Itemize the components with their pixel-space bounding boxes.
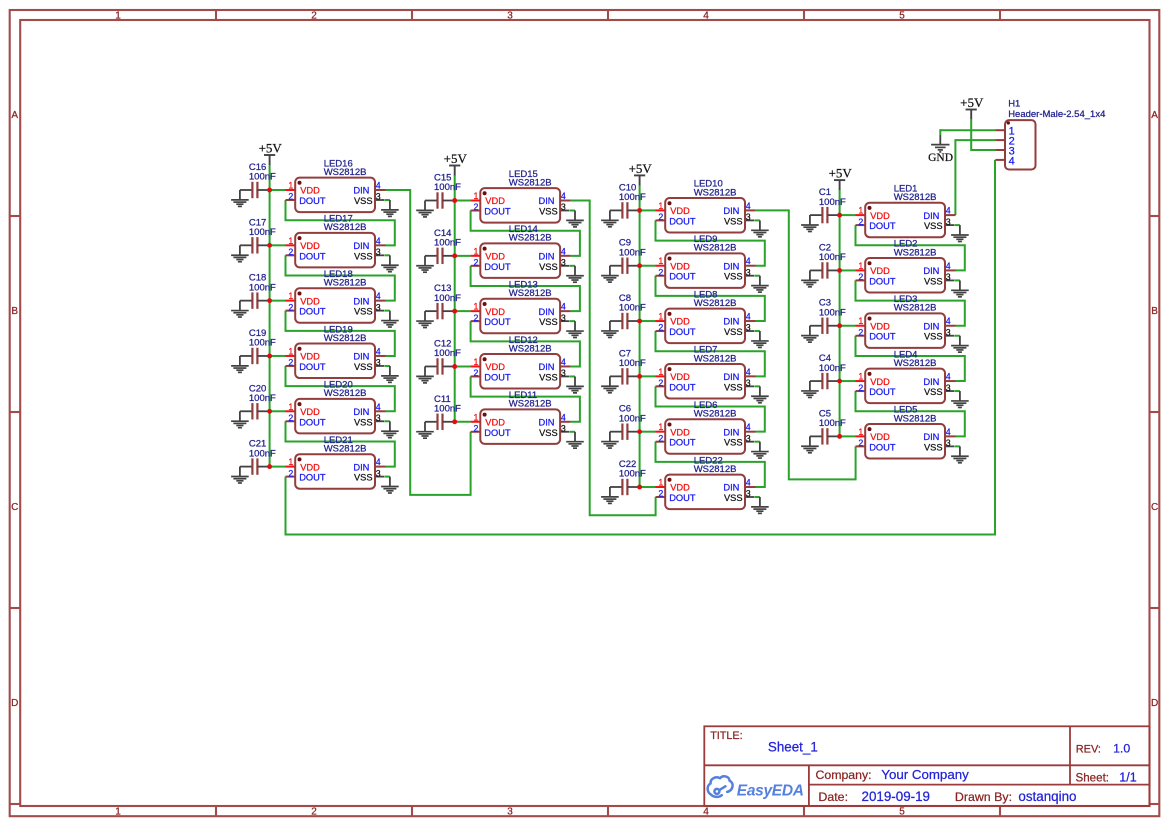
svg-text:VSS: VSS [724, 382, 743, 392]
svg-text:TITLE:: TITLE: [710, 730, 742, 742]
svg-text:DOUT: DOUT [669, 382, 696, 392]
svg-text:4: 4 [376, 181, 381, 191]
svg-text:VDD: VDD [870, 211, 890, 221]
svg-text:EasyEDA: EasyEDA [737, 782, 804, 799]
svg-text:DIN: DIN [723, 206, 739, 216]
svg-text:1: 1 [658, 422, 663, 432]
svg-text:3: 3 [376, 247, 381, 257]
svg-text:VDD: VDD [300, 407, 320, 417]
svg-text:VDD: VDD [870, 321, 890, 331]
svg-text:VSS: VSS [924, 276, 943, 286]
svg-text:2: 2 [658, 378, 663, 388]
svg-text:DIN: DIN [923, 321, 939, 331]
svg-text:1: 1 [858, 261, 863, 271]
svg-text:DOUT: DOUT [299, 473, 326, 483]
svg-text:100nF: 100nF [819, 197, 846, 208]
svg-text:1: 1 [473, 412, 478, 422]
svg-text:4: 4 [561, 412, 566, 422]
svg-text:WS2812B: WS2812B [694, 409, 737, 420]
svg-text:2: 2 [858, 272, 863, 282]
svg-text:DIN: DIN [353, 462, 369, 472]
svg-text:1.0: 1.0 [1113, 742, 1130, 756]
svg-text:VDD: VDD [300, 241, 320, 251]
svg-text:WS2812B: WS2812B [894, 247, 937, 258]
svg-text:3: 3 [561, 258, 566, 268]
svg-text:VDD: VDD [485, 307, 505, 317]
svg-text:1: 1 [288, 236, 293, 246]
svg-text:+5V: +5V [259, 141, 283, 156]
svg-text:2: 2 [658, 267, 663, 277]
svg-text:C: C [11, 502, 18, 513]
svg-text:VDD: VDD [670, 427, 690, 437]
svg-text:Sheet_1: Sheet_1 [768, 740, 818, 755]
svg-text:D: D [11, 698, 18, 709]
svg-text:100nF: 100nF [819, 252, 846, 263]
svg-text:VDD: VDD [300, 352, 320, 362]
svg-text:DIN: DIN [923, 211, 939, 221]
svg-text:VDD: VDD [670, 206, 690, 216]
svg-text:3: 3 [946, 217, 951, 227]
svg-text:2: 2 [311, 806, 317, 817]
svg-text:VDD: VDD [670, 483, 690, 493]
svg-text:WS2812B: WS2812B [509, 177, 552, 188]
svg-text:VSS: VSS [354, 473, 373, 483]
svg-text:3: 3 [746, 267, 751, 277]
svg-text:DOUT: DOUT [669, 438, 696, 448]
svg-text:4: 4 [561, 357, 566, 367]
svg-text:100nF: 100nF [619, 469, 646, 480]
svg-text:100nF: 100nF [434, 348, 461, 359]
svg-text:VDD: VDD [300, 462, 320, 472]
svg-text:WS2812B: WS2812B [509, 233, 552, 244]
svg-text:100nF: 100nF [249, 448, 276, 459]
svg-text:2: 2 [288, 192, 293, 202]
svg-text:VSS: VSS [539, 317, 558, 327]
svg-text:DOUT: DOUT [669, 327, 696, 337]
svg-text:DOUT: DOUT [869, 442, 896, 452]
svg-text:WS2812B: WS2812B [324, 333, 367, 344]
svg-text:4: 4 [376, 236, 381, 246]
svg-text:DOUT: DOUT [869, 276, 896, 286]
svg-text:100nF: 100nF [819, 363, 846, 374]
svg-text:WS2812B: WS2812B [894, 303, 937, 314]
svg-text:Sheet:: Sheet: [1076, 771, 1110, 784]
svg-text:DOUT: DOUT [299, 417, 326, 427]
svg-text:WS2812B: WS2812B [509, 399, 552, 410]
svg-text:WS2812B: WS2812B [894, 413, 937, 424]
svg-text:1: 1 [288, 181, 293, 191]
svg-text:VDD: VDD [670, 372, 690, 382]
svg-text:H1: H1 [1008, 99, 1020, 110]
svg-text:4: 4 [561, 302, 566, 312]
svg-text:2: 2 [658, 323, 663, 333]
svg-text:WS2812B: WS2812B [324, 167, 367, 178]
svg-text:5: 5 [899, 806, 905, 817]
svg-text:B: B [11, 306, 18, 317]
svg-text:DOUT: DOUT [869, 387, 896, 397]
svg-text:3: 3 [946, 327, 951, 337]
svg-text:DOUT: DOUT [299, 196, 326, 206]
svg-text:+5V: +5V [629, 161, 653, 176]
svg-text:GND: GND [928, 152, 953, 164]
svg-text:VSS: VSS [354, 251, 373, 261]
svg-text:DIN: DIN [353, 296, 369, 306]
svg-text:100nF: 100nF [819, 418, 846, 429]
svg-text:DIN: DIN [538, 417, 554, 427]
svg-text:A: A [11, 110, 18, 121]
svg-text:2: 2 [288, 358, 293, 368]
svg-text:1: 1 [858, 427, 863, 437]
svg-text:3: 3 [561, 368, 566, 378]
svg-text:DIN: DIN [353, 352, 369, 362]
svg-text:2: 2 [473, 368, 478, 378]
svg-text:VSS: VSS [724, 327, 743, 337]
svg-text:C: C [1151, 502, 1158, 513]
svg-text:1: 1 [858, 372, 863, 382]
svg-text:4: 4 [946, 316, 951, 326]
svg-text:4: 4 [746, 422, 751, 432]
svg-text:4: 4 [746, 478, 751, 488]
svg-text:3: 3 [746, 433, 751, 443]
svg-text:+5V: +5V [960, 95, 984, 110]
svg-text:VDD: VDD [300, 296, 320, 306]
svg-text:1: 1 [658, 312, 663, 322]
svg-text:100nF: 100nF [619, 303, 646, 314]
svg-text:DIN: DIN [723, 372, 739, 382]
svg-text:100nF: 100nF [434, 238, 461, 249]
svg-text:WS2812B: WS2812B [324, 444, 367, 455]
svg-text:VSS: VSS [924, 442, 943, 452]
svg-text:3: 3 [376, 413, 381, 423]
svg-text:4: 4 [946, 206, 951, 216]
svg-text:100nF: 100nF [249, 282, 276, 293]
svg-text:VSS: VSS [924, 221, 943, 231]
svg-text:3: 3 [746, 378, 751, 388]
svg-text:VDD: VDD [485, 252, 505, 262]
svg-text:4: 4 [746, 201, 751, 211]
svg-text:3: 3 [946, 438, 951, 448]
svg-text:1: 1 [473, 357, 478, 367]
svg-text:DIN: DIN [723, 427, 739, 437]
svg-text:4: 4 [703, 806, 709, 817]
svg-text:VSS: VSS [724, 438, 743, 448]
svg-text:2: 2 [288, 413, 293, 423]
svg-text:Header-Male-2.54_1x4: Header-Male-2.54_1x4 [1008, 109, 1105, 120]
svg-text:DIN: DIN [353, 407, 369, 417]
svg-text:4: 4 [703, 10, 709, 21]
svg-text:DOUT: DOUT [869, 332, 896, 342]
svg-text:100nF: 100nF [434, 182, 461, 193]
svg-text:1: 1 [473, 246, 478, 256]
svg-text:2: 2 [288, 302, 293, 312]
svg-text:100nF: 100nF [619, 247, 646, 258]
svg-text:VSS: VSS [924, 332, 943, 342]
svg-text:2: 2 [858, 327, 863, 337]
svg-text:1: 1 [658, 201, 663, 211]
svg-text:Date:: Date: [818, 790, 848, 804]
svg-text:3: 3 [561, 313, 566, 323]
svg-text:DOUT: DOUT [484, 317, 511, 327]
svg-text:VSS: VSS [924, 387, 943, 397]
svg-text:5: 5 [899, 10, 905, 21]
svg-text:1: 1 [858, 206, 863, 216]
svg-text:1: 1 [115, 806, 121, 817]
svg-text:4: 4 [946, 261, 951, 271]
svg-text:3: 3 [746, 323, 751, 333]
svg-text:2: 2 [858, 383, 863, 393]
svg-text:2: 2 [658, 433, 663, 443]
svg-text:4: 4 [746, 367, 751, 377]
svg-text:4: 4 [376, 457, 381, 467]
svg-text:2: 2 [658, 489, 663, 499]
svg-text:4: 4 [376, 291, 381, 301]
svg-text:DIN: DIN [538, 307, 554, 317]
svg-text:100nF: 100nF [249, 393, 276, 404]
svg-text:ostanqino: ostanqino [1018, 789, 1076, 804]
svg-text:Your Company: Your Company [881, 767, 969, 782]
svg-text:DIN: DIN [353, 241, 369, 251]
svg-text:DOUT: DOUT [484, 372, 511, 382]
svg-text:2: 2 [473, 258, 478, 268]
svg-text:DIN: DIN [723, 317, 739, 327]
svg-text:3: 3 [376, 302, 381, 312]
svg-text:VDD: VDD [300, 186, 320, 196]
svg-text:100nF: 100nF [619, 358, 646, 369]
svg-text:WS2812B: WS2812B [694, 243, 737, 254]
svg-text:DIN: DIN [538, 252, 554, 262]
svg-text:3: 3 [507, 10, 513, 21]
svg-text:DOUT: DOUT [669, 493, 696, 503]
svg-text:100nF: 100nF [249, 338, 276, 349]
svg-text:100nF: 100nF [619, 413, 646, 424]
svg-text:1: 1 [288, 291, 293, 301]
svg-text:DOUT: DOUT [299, 251, 326, 261]
svg-text:WS2812B: WS2812B [324, 388, 367, 399]
svg-text:VSS: VSS [354, 362, 373, 372]
svg-text:100nF: 100nF [249, 227, 276, 238]
svg-text:3: 3 [946, 272, 951, 282]
svg-text:4: 4 [561, 246, 566, 256]
svg-text:VDD: VDD [485, 417, 505, 427]
svg-text:A: A [1151, 110, 1158, 121]
svg-text:VSS: VSS [724, 493, 743, 503]
svg-text:3: 3 [746, 212, 751, 222]
svg-text:D: D [1151, 698, 1158, 709]
svg-text:VSS: VSS [539, 262, 558, 272]
svg-text:1: 1 [115, 10, 121, 21]
svg-text:+5V: +5V [444, 151, 468, 166]
svg-text:DIN: DIN [923, 266, 939, 276]
svg-text:100nF: 100nF [434, 293, 461, 304]
svg-text:100nF: 100nF [434, 403, 461, 414]
svg-text:WS2812B: WS2812B [694, 464, 737, 475]
svg-text:2: 2 [311, 10, 317, 21]
svg-text:VSS: VSS [539, 428, 558, 438]
svg-text:WS2812B: WS2812B [694, 298, 737, 309]
svg-text:1: 1 [658, 367, 663, 377]
svg-text:VSS: VSS [354, 307, 373, 317]
svg-text:WS2812B: WS2812B [509, 288, 552, 299]
svg-text:4: 4 [376, 402, 381, 412]
svg-text:2: 2 [288, 247, 293, 257]
svg-text:4: 4 [376, 346, 381, 356]
svg-text:1: 1 [658, 256, 663, 266]
svg-text:VDD: VDD [670, 261, 690, 271]
svg-text:3: 3 [561, 202, 566, 212]
svg-text:1: 1 [658, 478, 663, 488]
svg-text:VSS: VSS [539, 207, 558, 217]
svg-text:3: 3 [507, 806, 513, 817]
svg-text:2: 2 [858, 217, 863, 227]
svg-text:3: 3 [376, 192, 381, 202]
svg-text:VSS: VSS [724, 272, 743, 282]
svg-text:1: 1 [288, 457, 293, 467]
svg-text:1: 1 [473, 302, 478, 312]
svg-text:REV:: REV: [1076, 743, 1101, 755]
svg-text:3: 3 [376, 468, 381, 478]
svg-text:WS2812B: WS2812B [894, 192, 937, 203]
svg-text:WS2812B: WS2812B [694, 187, 737, 198]
svg-text:DIN: DIN [353, 186, 369, 196]
svg-text:DOUT: DOUT [869, 221, 896, 231]
svg-text:DIN: DIN [538, 196, 554, 206]
svg-text:3: 3 [746, 489, 751, 499]
svg-text:1/1: 1/1 [1119, 771, 1136, 785]
svg-text:1: 1 [858, 316, 863, 326]
svg-text:WS2812B: WS2812B [509, 343, 552, 354]
svg-text:2: 2 [858, 438, 863, 448]
svg-text:Company:: Company: [816, 768, 872, 782]
svg-text:VSS: VSS [354, 196, 373, 206]
svg-text:VSS: VSS [354, 417, 373, 427]
svg-text:WS2812B: WS2812B [324, 222, 367, 233]
svg-text:2: 2 [473, 423, 478, 433]
svg-text:DOUT: DOUT [669, 272, 696, 282]
svg-text:VSS: VSS [724, 216, 743, 226]
svg-text:WS2812B: WS2812B [894, 358, 937, 369]
svg-text:DIN: DIN [923, 432, 939, 442]
svg-text:2: 2 [288, 468, 293, 478]
svg-text:4: 4 [746, 256, 751, 266]
svg-text:1: 1 [288, 346, 293, 356]
svg-text:DOUT: DOUT [484, 428, 511, 438]
svg-text:DOUT: DOUT [484, 207, 511, 217]
svg-text:3: 3 [376, 358, 381, 368]
svg-text:DIN: DIN [723, 483, 739, 493]
svg-text:B: B [1151, 306, 1158, 317]
svg-text:VDD: VDD [485, 362, 505, 372]
svg-text:100nF: 100nF [249, 172, 276, 183]
svg-text:WS2812B: WS2812B [324, 278, 367, 289]
svg-text:DOUT: DOUT [299, 362, 326, 372]
svg-text:VDD: VDD [485, 196, 505, 206]
svg-text:100nF: 100nF [819, 307, 846, 318]
svg-text:VDD: VDD [870, 266, 890, 276]
svg-text:3: 3 [946, 383, 951, 393]
svg-text:DIN: DIN [923, 377, 939, 387]
svg-text:4: 4 [561, 191, 566, 201]
svg-text:100nF: 100nF [619, 192, 646, 203]
svg-text:VDD: VDD [670, 317, 690, 327]
svg-text:DOUT: DOUT [484, 262, 511, 272]
svg-text:2: 2 [658, 212, 663, 222]
svg-text:DOUT: DOUT [669, 216, 696, 226]
svg-text:1: 1 [473, 191, 478, 201]
svg-text:DIN: DIN [538, 362, 554, 372]
svg-text:4: 4 [946, 372, 951, 382]
svg-text:1: 1 [288, 402, 293, 412]
svg-text:4: 4 [746, 312, 751, 322]
svg-text:Drawn By:: Drawn By: [955, 790, 1012, 804]
svg-text:WS2812B: WS2812B [694, 353, 737, 364]
svg-text:4: 4 [946, 427, 951, 437]
svg-text:+5V: +5V [829, 166, 853, 181]
svg-text:VSS: VSS [539, 372, 558, 382]
svg-text:VDD: VDD [870, 377, 890, 387]
svg-text:4: 4 [1009, 155, 1015, 167]
svg-text:DOUT: DOUT [299, 307, 326, 317]
svg-text:2019-09-19: 2019-09-19 [862, 789, 931, 804]
svg-text:3: 3 [561, 423, 566, 433]
svg-text:2: 2 [473, 202, 478, 212]
svg-text:VDD: VDD [870, 432, 890, 442]
svg-text:DIN: DIN [723, 261, 739, 271]
svg-text:2: 2 [473, 313, 478, 323]
